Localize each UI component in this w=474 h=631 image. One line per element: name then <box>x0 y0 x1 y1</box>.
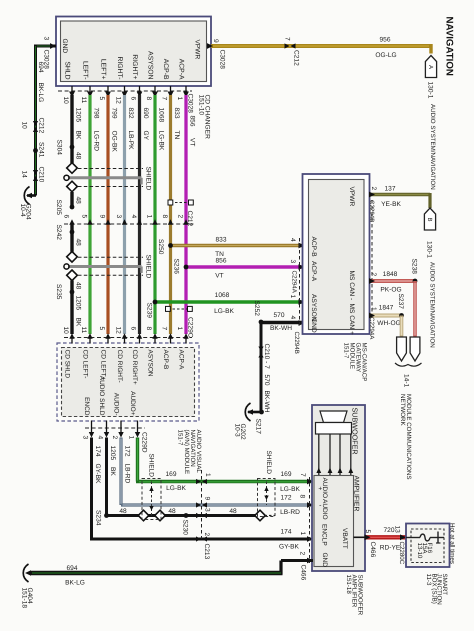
svg-text:4: 4 <box>130 215 137 219</box>
wire 137 YE-BK <box>370 193 431 197</box>
svg-text:ACP-B: ACP-B <box>162 59 169 80</box>
svg-text:833: 833 <box>173 108 180 119</box>
svg-text:VT: VT <box>215 273 223 280</box>
svg-text:1205: 1205 <box>75 108 82 123</box>
svg-text:AUDIO SHLD: AUDIO SHLD <box>98 376 105 416</box>
wire 1068 LG-BK <box>153 95 156 334</box>
svg-text:LB-RD: LB-RD <box>280 509 300 516</box>
network connector (MS CAN-) <box>410 337 420 361</box>
wire 690 GY <box>138 95 141 334</box>
svg-text:6: 6 <box>63 215 70 219</box>
svg-text:LB-RD: LB-RD <box>124 464 131 484</box>
svg-text:NETWORK: NETWORK <box>399 394 406 426</box>
splice S304 <box>70 145 75 150</box>
svg-text:LEFT+: LEFT+ <box>100 59 107 80</box>
svg-text:GY-BK: GY-BK <box>279 544 300 551</box>
svg-text:1: 1 <box>289 295 296 299</box>
MS-CAN/ACP gateway module U2 <box>303 174 370 334</box>
wire 174 GY-BK <box>90 438 93 541</box>
svg-text:C2280C: C2280C <box>398 542 405 565</box>
svg-text:12: 12 <box>114 97 121 105</box>
svg-text:AUDIO-: AUDIO- <box>113 393 120 416</box>
svg-text:8: 8 <box>161 215 168 219</box>
connector C213 dashes <box>201 470 203 539</box>
connector C212 break pin 10 <box>33 127 38 132</box>
svg-text:1068: 1068 <box>215 292 230 299</box>
svg-text:151-7: 151-7 <box>177 430 184 446</box>
svg-text:S304: S304 <box>56 140 63 156</box>
svg-text:LG-BK: LG-BK <box>166 485 186 492</box>
shield box 1 <box>142 479 161 520</box>
svg-text:956: 956 <box>379 37 390 44</box>
svg-text:3: 3 <box>204 508 211 512</box>
wire 1205 BK (CD shield drain) <box>70 95 73 163</box>
svg-text:AUDIO: AUDIO <box>321 499 328 520</box>
amplifier GND wire / 694 BK-LG <box>281 559 313 562</box>
svg-text:1: 1 <box>146 215 153 219</box>
connector C212 break pin 7 <box>291 43 296 48</box>
svg-text:832: 832 <box>127 108 134 119</box>
svg-text:B: B <box>426 218 433 222</box>
splice S236 / wire 856 VT run <box>186 265 303 268</box>
svg-text:14-1: 14-1 <box>403 374 410 388</box>
svg-text:11-3: 11-3 <box>425 574 432 586</box>
splice S217 / ground G202 <box>248 411 261 414</box>
svg-text:OG-LG: OG-LG <box>375 52 396 59</box>
CD changer U1 box <box>56 17 211 87</box>
svg-text:C212: C212 <box>186 211 193 227</box>
svg-text:1068: 1068 <box>158 108 165 123</box>
svg-text:690: 690 <box>142 108 149 119</box>
splice S239 / wire 1068 LG-BK run <box>155 300 303 303</box>
splice S252 / wire 570 BK-WH <box>261 321 303 324</box>
svg-text:PK-OG: PK-OG <box>380 287 401 294</box>
twisted pair symbol 2 <box>168 308 190 310</box>
svg-text:1: 1 <box>176 97 183 101</box>
wire 1848 PK-OG / splice S238 <box>370 279 416 283</box>
wire 48 shield drain run <box>107 514 256 517</box>
svg-text:3: 3 <box>289 260 296 264</box>
svg-text:5: 5 <box>364 530 371 534</box>
svg-text:AUDIO SYSTEM/NAVIGATION: AUDIO SYSTEM/NAVIGATION <box>429 104 436 190</box>
svg-text:BK: BK <box>75 318 82 327</box>
svg-text:C466: C466 <box>300 565 307 581</box>
svg-text:ACP-B: ACP-B <box>310 237 317 258</box>
svg-text:S237: S237 <box>397 294 404 310</box>
svg-text:7: 7 <box>284 37 291 41</box>
svg-text:BK-LG: BK-LG <box>65 580 85 587</box>
svg-text:151-7: 151-7 <box>342 343 349 359</box>
svg-text:SHIELD: SHIELD <box>265 451 272 475</box>
svg-text:+: + <box>318 486 322 493</box>
svg-text:OG-BK: OG-BK <box>111 131 118 153</box>
splice S235 <box>70 290 75 295</box>
subwoofer speaker symbol <box>320 411 347 423</box>
svg-text:10: 10 <box>21 122 28 130</box>
svg-text:S252: S252 <box>253 301 260 317</box>
connector B (to navigation) <box>424 208 435 230</box>
twisted pair symbol <box>171 202 192 204</box>
svg-text:48: 48 <box>168 508 176 515</box>
svg-text:570: 570 <box>263 375 270 386</box>
svg-text:SHLD: SHLD <box>64 61 71 79</box>
svg-text:A: A <box>427 65 434 69</box>
svg-text:10: 10 <box>62 97 69 105</box>
svg-text:S235: S235 <box>55 284 62 300</box>
svg-text:151-10: 151-10 <box>198 95 205 116</box>
svg-text:48: 48 <box>229 508 237 515</box>
svg-text:BK-WH: BK-WH <box>263 391 270 413</box>
splice S241 <box>33 148 38 153</box>
svg-text:S250: S250 <box>157 239 164 255</box>
svg-text:169: 169 <box>165 471 176 478</box>
svg-text:C210 - 7: C210 - 7 <box>263 344 270 370</box>
svg-text:C2294A: C2294A <box>368 317 375 340</box>
svg-text:C212: C212 <box>293 50 300 66</box>
svg-text:CD RIGHT-: CD RIGHT- <box>116 350 123 383</box>
svg-text:LB-PK: LB-PK <box>127 131 134 151</box>
svg-text:LEFT-: LEFT- <box>82 61 89 80</box>
connector C229D pin row <box>85 427 145 429</box>
svg-text:7: 7 <box>160 97 167 101</box>
svg-text:ACP-A: ACP-A <box>310 261 317 282</box>
fuse F16 15A <box>406 537 420 539</box>
splice S250 / wire 833 TN run <box>171 244 303 247</box>
svg-text:VBATT: VBATT <box>341 528 348 549</box>
smart junction box (SJB) <box>406 524 450 568</box>
svg-text:RIGHT-: RIGHT- <box>116 56 123 79</box>
svg-text:AUDIO+: AUDIO+ <box>129 391 136 416</box>
svg-text:BK: BK <box>109 467 116 476</box>
svg-text:3: 3 <box>82 436 89 440</box>
svg-text:9: 9 <box>99 215 106 219</box>
svg-text:2: 2 <box>370 273 377 277</box>
svg-text:10: 10 <box>62 327 69 335</box>
wire 856 VT <box>184 95 187 334</box>
svg-text:7: 7 <box>160 327 167 331</box>
svg-text:BK-LG: BK-LG <box>37 83 44 103</box>
svg-text:VPWR: VPWR <box>194 40 201 60</box>
svg-text:YE-BK: YE-BK <box>381 201 401 208</box>
svg-text:C212: C212 <box>38 118 45 134</box>
svg-text:RD-YE: RD-YE <box>380 545 401 552</box>
svg-text:169: 169 <box>280 471 291 478</box>
connector C212 crossing <box>64 223 196 225</box>
svg-text:798: 798 <box>93 108 100 119</box>
connector C2294A dashes (left) <box>299 238 301 328</box>
svg-text:C466: C466 <box>369 542 376 558</box>
svg-text:ACP-B: ACP-B <box>162 350 169 370</box>
svg-text:12: 12 <box>114 327 121 335</box>
connector C466 dashes <box>309 477 311 563</box>
svg-text:2: 2 <box>299 552 306 556</box>
svg-text:ASYSON: ASYSON <box>147 350 154 377</box>
wire 1847 WH-OG / splice S237 <box>370 314 402 318</box>
svg-text:CD RIGHT+: CD RIGHT+ <box>131 350 138 385</box>
svg-text:ACP-A: ACP-A <box>178 59 185 80</box>
svg-text:137: 137 <box>384 186 395 193</box>
svg-text:1848: 1848 <box>383 271 398 278</box>
svg-text:5: 5 <box>81 215 88 219</box>
svg-text:6: 6 <box>129 327 136 331</box>
svg-text:S238: S238 <box>410 259 417 275</box>
svg-text:174: 174 <box>94 446 101 457</box>
svg-text:C229C: C229C <box>186 317 193 338</box>
connector C210 break pin 14 <box>33 176 38 181</box>
svg-text:LG-BK: LG-BK <box>158 131 165 151</box>
svg-text:13-10: 13-10 <box>416 543 423 559</box>
ground G204 <box>27 194 36 197</box>
svg-text:9: 9 <box>204 497 211 501</box>
svg-text:2: 2 <box>177 215 184 219</box>
svg-text:6: 6 <box>129 97 136 101</box>
svg-text:NAVIGATION: NAVIGATION <box>444 17 455 76</box>
wire 956 OG-LG <box>211 44 431 48</box>
svg-text:7: 7 <box>299 473 306 477</box>
svg-text:1847: 1847 <box>379 305 394 312</box>
svg-text:8: 8 <box>145 327 152 331</box>
splice S230 <box>184 513 189 518</box>
svg-text:BK-WH: BK-WH <box>270 325 292 332</box>
AVN module U3 (dashed box) <box>57 343 199 421</box>
svg-text:10-3: 10-3 <box>233 424 240 438</box>
svg-text:GND: GND <box>61 39 68 54</box>
splice S205 <box>70 205 75 210</box>
svg-text:MS CAN +: MS CAN + <box>348 304 355 335</box>
svg-text:WH-OG: WH-OG <box>377 320 400 327</box>
connector dashes (right) <box>371 200 373 318</box>
svg-text:48: 48 <box>119 508 127 515</box>
svg-text:MS CAN -: MS CAN - <box>348 271 355 301</box>
svg-text:833: 833 <box>215 237 226 244</box>
svg-text:LG-BK: LG-BK <box>280 486 300 493</box>
svg-text:694: 694 <box>37 62 44 73</box>
connector A (to navigation) <box>425 56 436 78</box>
shield symbol (lower) <box>78 256 143 258</box>
svg-text:1: 1 <box>176 327 183 331</box>
svg-text:48: 48 <box>75 282 82 290</box>
wire 720 RD-YE VBATT feed <box>354 536 366 538</box>
svg-text:S205: S205 <box>55 200 62 216</box>
svg-text:570: 570 <box>273 312 284 319</box>
splice S242 <box>70 230 75 235</box>
svg-text:1205: 1205 <box>109 446 116 461</box>
svg-text:GY: GY <box>142 131 149 141</box>
svg-text:694: 694 <box>66 565 77 572</box>
svg-text:VPWR: VPWR <box>348 187 355 207</box>
svg-text:AUDIO SYSTEM/NAVIGATION: AUDIO SYSTEM/NAVIGATION <box>428 262 435 348</box>
svg-text:130-1: 130-1 <box>427 82 434 99</box>
svg-text:151-18: 151-18 <box>345 575 352 595</box>
svg-text:5: 5 <box>98 97 105 101</box>
svg-text:11: 11 <box>80 97 87 104</box>
svg-text:2: 2 <box>203 533 210 537</box>
svg-text:48: 48 <box>75 197 82 205</box>
connector C210 break pin 7 <box>258 353 263 358</box>
wire 832 LB-PK <box>123 95 126 334</box>
ground G404 <box>25 570 31 576</box>
svg-text:856: 856 <box>189 116 196 127</box>
svg-text:1: 1 <box>128 436 135 440</box>
svg-text:C2294A: C2294A <box>291 271 298 294</box>
wire 172 LB-RD <box>119 438 122 506</box>
svg-text:Hot at all times: Hot at all times <box>448 523 455 564</box>
svg-text:856: 856 <box>215 258 226 265</box>
connector C213 break pin 2 <box>202 536 207 541</box>
svg-text:1205: 1205 <box>75 296 82 311</box>
svg-text:2: 2 <box>370 187 377 191</box>
svg-text:5: 5 <box>98 327 105 331</box>
svg-text:CD SHLD: CD SHLD <box>64 350 71 379</box>
svg-text:C2294B: C2294B <box>368 200 375 222</box>
svg-text:C3028: C3028 <box>219 50 226 70</box>
svg-text:2: 2 <box>111 436 118 440</box>
svg-text:SHIELD: SHIELD <box>145 167 152 191</box>
svg-text:BK: BK <box>75 131 82 140</box>
svg-text:S241: S241 <box>38 142 45 158</box>
svg-text:S239: S239 <box>146 303 153 319</box>
svg-text:13: 13 <box>393 526 400 534</box>
svg-text:799: 799 <box>111 108 118 119</box>
svg-text:ENCD: ENCD <box>83 397 90 416</box>
svg-text:1: 1 <box>370 307 377 311</box>
svg-text:TN: TN <box>173 131 180 140</box>
svg-text:14: 14 <box>21 171 28 179</box>
wire 694 BK-LG from CD changer GND <box>36 45 57 48</box>
svg-text:48: 48 <box>75 239 82 247</box>
svg-text:4: 4 <box>97 436 104 440</box>
svg-text:8: 8 <box>299 495 306 499</box>
svg-text:VT: VT <box>189 138 196 146</box>
svg-text:ENCLP: ENCLP <box>321 524 328 546</box>
wire 48 BK segment <box>70 224 73 252</box>
svg-text:C2294B: C2294B <box>293 332 300 354</box>
svg-text:172: 172 <box>124 446 131 457</box>
svg-text:S234: S234 <box>95 510 102 526</box>
svg-text:9: 9 <box>212 39 219 43</box>
svg-text:720: 720 <box>383 527 394 534</box>
svg-text:GND: GND <box>310 318 317 333</box>
svg-text:151-18: 151-18 <box>21 588 28 609</box>
subwoofer amplifier U4 box <box>312 405 365 571</box>
splice S234 <box>104 513 109 518</box>
svg-text:S230: S230 <box>181 520 188 536</box>
connector C229C pin row <box>64 337 192 339</box>
svg-text:C213: C213 <box>203 544 210 560</box>
svg-text:LG-RD: LG-RD <box>93 131 100 152</box>
svg-text:ACP-A: ACP-A <box>178 350 185 371</box>
svg-text:8: 8 <box>145 97 152 101</box>
svg-text:130-1: 130-1 <box>426 241 433 258</box>
svg-text:S242: S242 <box>55 225 62 241</box>
svg-text:ASYSON: ASYSON <box>147 51 154 79</box>
svg-text:GND: GND <box>321 553 328 568</box>
svg-text:3: 3 <box>115 215 122 219</box>
wire 169 LG-BK <box>136 438 139 482</box>
svg-text:SHIELD: SHIELD <box>147 454 154 478</box>
svg-text:S236: S236 <box>173 259 180 275</box>
connector C3028 pin row <box>58 90 192 92</box>
svg-text:1: 1 <box>204 473 211 477</box>
svg-text:1: 1 <box>299 532 306 536</box>
amplifier inner box <box>314 476 354 567</box>
svg-text:3: 3 <box>43 37 50 41</box>
svg-text:C210: C210 <box>38 167 45 183</box>
network connector (MS CAN+) <box>397 337 407 361</box>
svg-text:4: 4 <box>289 316 296 320</box>
svg-text:11: 11 <box>80 327 87 334</box>
wire 799 OG-BK <box>106 95 109 334</box>
svg-text:C229D: C229D <box>141 432 148 453</box>
wire 833 TN <box>169 95 172 334</box>
wire 798 LG-RD <box>88 95 91 334</box>
svg-text:AMPLIFIER: AMPLIFIER <box>353 476 360 512</box>
wire 1205 BK (audio shield) <box>105 438 108 516</box>
svg-text:48: 48 <box>75 152 82 160</box>
svg-text:CD LEFT-: CD LEFT- <box>82 350 89 379</box>
svg-text:SHIELD: SHIELD <box>145 255 152 279</box>
brace 14-1 module communications network <box>395 363 422 366</box>
shield symbol (upper) <box>78 168 143 170</box>
svg-text:172: 172 <box>280 495 291 502</box>
svg-text:10-4: 10-4 <box>19 204 26 218</box>
svg-text:S217: S217 <box>255 419 262 435</box>
svg-text:4: 4 <box>289 238 296 242</box>
svg-text:RIGHT+: RIGHT+ <box>131 54 138 79</box>
svg-text:174: 174 <box>280 529 291 536</box>
shield box 2 <box>258 479 276 517</box>
svg-text:GY-BK: GY-BK <box>94 464 101 485</box>
svg-text:LG-BK: LG-BK <box>214 308 234 315</box>
